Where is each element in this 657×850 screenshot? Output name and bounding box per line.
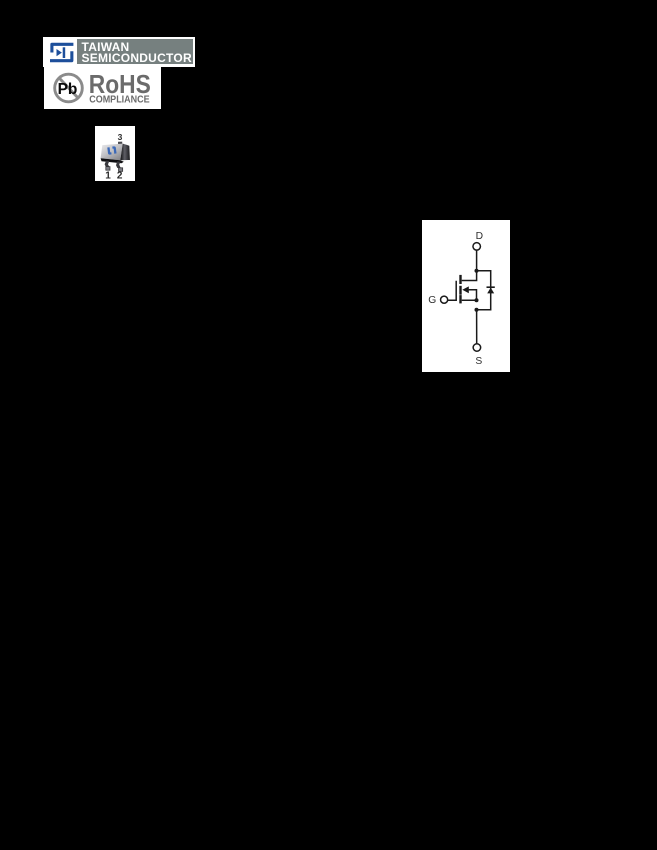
- svg-text:3: 3: [118, 132, 123, 142]
- svg-text:D: D: [476, 231, 483, 242]
- svg-text:COMPLIANCE: COMPLIANCE: [89, 94, 150, 105]
- svg-text:2: 2: [117, 171, 123, 181]
- svg-text:1: 1: [105, 171, 111, 181]
- svg-text:S: S: [475, 356, 482, 367]
- svg-text:G: G: [428, 295, 436, 306]
- svg-text:Pb: Pb: [58, 80, 78, 97]
